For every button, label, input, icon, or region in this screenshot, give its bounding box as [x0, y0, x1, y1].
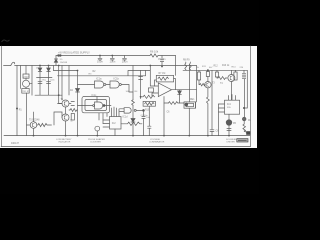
svg-text:IC1a: IC1a — [96, 77, 102, 81]
svg-text:230V: 230V — [23, 76, 29, 78]
svg-text:C5 10n: C5 10n — [158, 59, 166, 61]
svg-text:IC1b: IC1b — [114, 77, 120, 81]
svg-text:RE1: RE1 — [190, 99, 195, 101]
svg-text:R10: R10 — [145, 110, 150, 112]
svg-text:TR1 9V: TR1 9V — [22, 91, 30, 93]
svg-text:R7 1M: R7 1M — [159, 73, 166, 75]
svg-text:470u: 470u — [42, 79, 46, 81]
svg-text:DRIVER: DRIVER — [227, 141, 236, 143]
svg-text:R8 R9: R8 R9 — [183, 60, 190, 62]
svg-text:100n: 100n — [110, 59, 116, 63]
svg-text:100n: 100n — [122, 59, 128, 63]
svg-text:IC4: IC4 — [227, 103, 231, 106]
svg-text:+9V REGULATED SUPPLY: +9V REGULATED SUPPLY — [58, 50, 90, 54]
svg-text:IC1d: IC1d — [123, 117, 129, 119]
svg-text:IC2: IC2 — [112, 122, 116, 125]
svg-text:R12: R12 — [214, 66, 219, 68]
svg-text:INDICATOR: INDICATOR — [59, 140, 71, 143]
svg-text:COMPARATOR: COMPARATOR — [149, 140, 165, 143]
svg-text:COUNTER: COUNTER — [90, 141, 101, 143]
svg-text:940137: 940137 — [11, 142, 20, 145]
svg-text:100n: 100n — [50, 79, 54, 81]
svg-text:100n: 100n — [97, 59, 103, 63]
svg-text:R13 1k: R13 1k — [222, 65, 230, 67]
svg-text:R6 10k: R6 10k — [150, 50, 159, 54]
svg-text:1N4148: 1N4148 — [60, 62, 68, 64]
svg-text:T5 BC548: T5 BC548 — [29, 120, 40, 122]
